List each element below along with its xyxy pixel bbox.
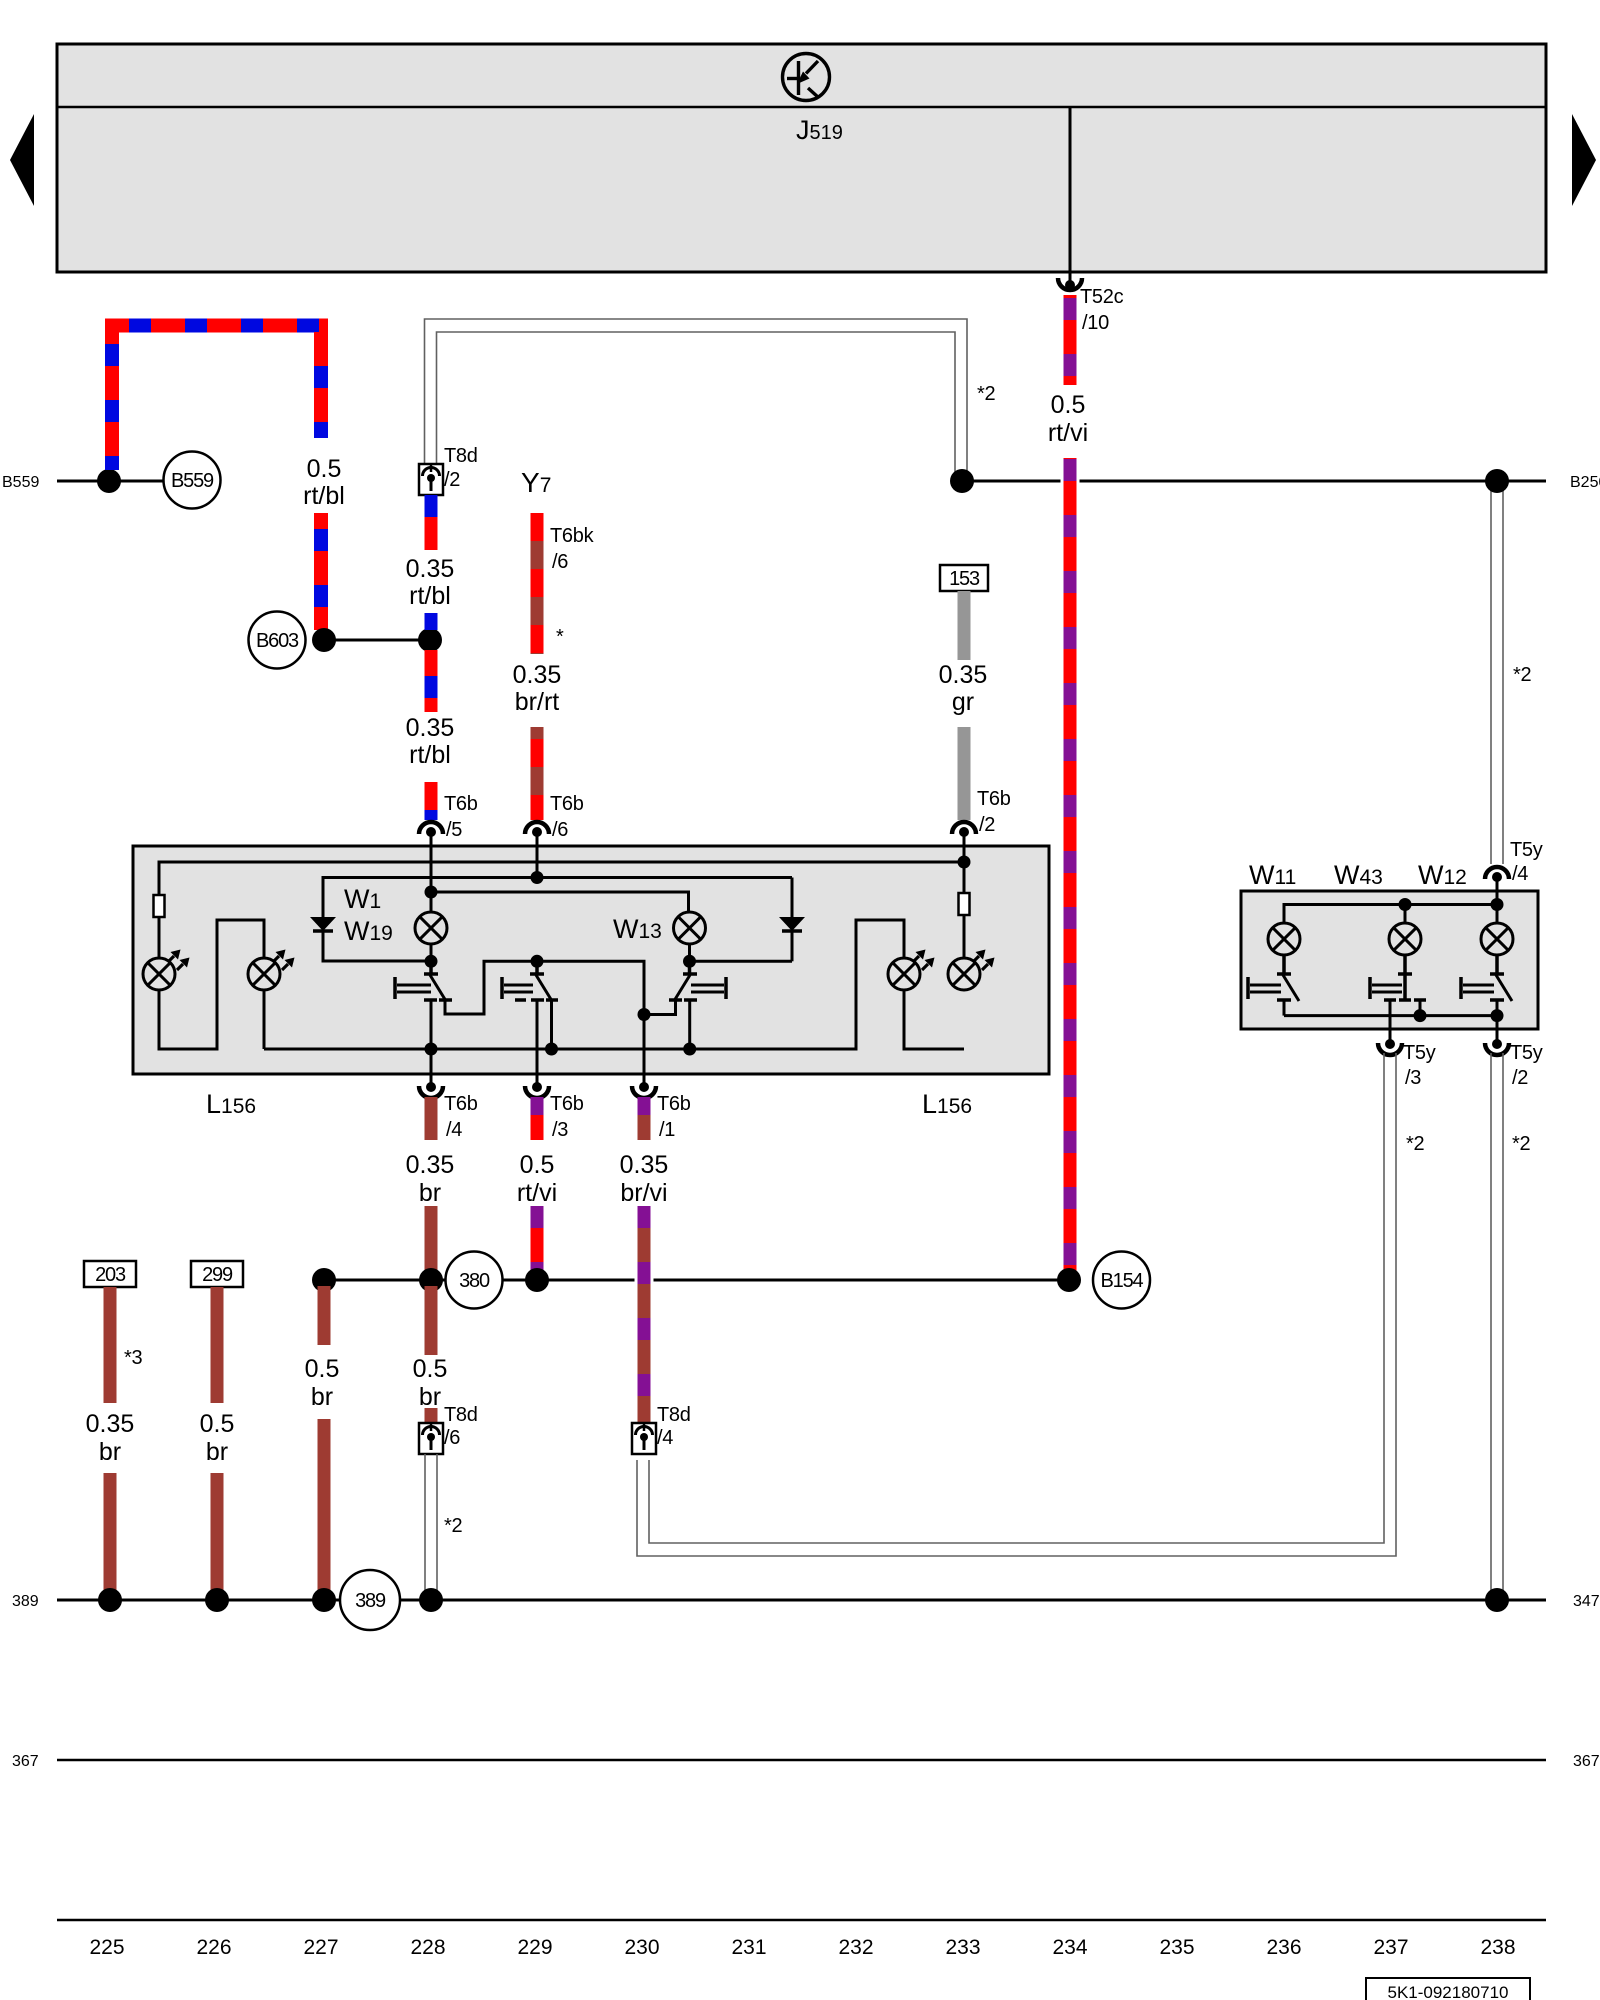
svg-text:235: 235	[1159, 1936, 1194, 1959]
svg-text:T8d: T8d	[444, 1404, 478, 1426]
svg-text:T6b: T6b	[550, 793, 584, 815]
svg-text:rt/bl: rt/bl	[409, 582, 451, 610]
wire: T6b/5 pin line into W1 bulb	[430, 846, 433, 912]
svg-text:B250: B250	[1570, 474, 1600, 491]
wire 0.35 br/rt (Y7 to T6b/6)	[531, 513, 544, 820]
svg-text:T5y: T5y	[1510, 1042, 1543, 1064]
wire: top rail y862	[159, 862, 964, 895]
svg-text:T6bk: T6bk	[550, 525, 595, 547]
svg-text:0.5: 0.5	[305, 1355, 340, 1383]
svg-text:br/rt: br/rt	[515, 688, 560, 716]
LED E2	[248, 950, 295, 991]
connector T8d/6 (boxed)	[419, 1404, 478, 1454]
svg-text:0.5: 0.5	[200, 1410, 235, 1438]
circle 389	[340, 1570, 400, 1630]
svg-text:/6: /6	[444, 1427, 460, 1449]
svg-text:br: br	[311, 1383, 333, 1411]
wire 0.5 rt/bl (п-shape top left)	[105, 326, 328, 631]
svg-text:B154: B154	[1101, 1270, 1144, 1292]
svg-text:/3: /3	[552, 1119, 568, 1141]
svg-text:229: 229	[517, 1936, 552, 1959]
box 203	[84, 1261, 136, 1287]
connector T52c/10	[1058, 272, 1124, 334]
wire 0.35 rt/bl (B603 node down to T6b/5)	[425, 650, 438, 820]
svg-text:230: 230	[624, 1936, 659, 1959]
svg-text:5K1-092180710: 5K1-092180710	[1387, 1983, 1508, 2000]
svg-text:/5: /5	[446, 819, 462, 841]
node on B559 line	[97, 469, 121, 493]
track numbers	[89, 1936, 1515, 1959]
wire 0.35 rt/bl (T8d/2 down to B603 node)	[425, 495, 438, 630]
svg-text:347: 347	[1573, 1593, 1600, 1610]
svg-text:T52c: T52c	[1080, 286, 1124, 308]
W11 bulb bottom to line	[1283, 1000, 1286, 1016]
B559 line (left)	[57, 480, 163, 483]
svg-text:/4: /4	[657, 1427, 673, 1449]
wire 0.5 br (299 down to 389 line)	[211, 1287, 224, 1594]
wire 0.35 br (T6b/4 down to 380 node)	[425, 1097, 438, 1280]
right page arrow	[1572, 114, 1596, 206]
switch under W11	[1248, 955, 1299, 1001]
svg-text:B603: B603	[256, 630, 299, 652]
W43 pin line down to T5y/3	[1389, 1000, 1392, 1042]
box 299	[191, 1261, 243, 1287]
svg-text:*3: *3	[124, 1347, 142, 1369]
wire 0.5 rt/vi (T6b/3 down to 380 line)	[531, 1097, 544, 1274]
LED E4	[948, 950, 995, 991]
connector T8d/4 (boxed)	[632, 1404, 691, 1454]
svg-text:225: 225	[89, 1936, 124, 1959]
junction dots inside L156	[425, 856, 971, 1056]
svg-text:*2: *2	[977, 383, 995, 405]
svg-text:T6b: T6b	[444, 793, 478, 815]
bulb W12	[1481, 923, 1513, 955]
svg-text:W12: W12	[1418, 860, 1467, 890]
svg-text:226: 226	[196, 1936, 231, 1959]
transistor/switch T1	[395, 961, 452, 1001]
svg-text:*2: *2	[1406, 1133, 1424, 1155]
wire: W13 bulb bottom	[688, 944, 691, 961]
wire: T2 collector link y961 to pin1 column	[537, 961, 644, 1083]
connector T5y/4	[1485, 839, 1543, 892]
bulb W1/W19	[415, 912, 447, 944]
svg-text:*: *	[556, 626, 564, 648]
svg-text:br: br	[99, 1438, 121, 1466]
svg-text:380: 380	[459, 1270, 490, 1292]
bottom track line	[57, 1919, 1546, 1922]
svg-text:/1: /1	[659, 1119, 675, 1141]
wire: W1 bulb bottom	[430, 944, 433, 961]
twisted pair wire to T8d/2 (*2)	[425, 319, 968, 474]
svg-text:/10: /10	[1082, 312, 1109, 334]
svg-text:231: 231	[731, 1936, 766, 1959]
svg-text:0.5: 0.5	[307, 455, 342, 483]
svg-text:0.35: 0.35	[513, 661, 562, 689]
wire 0.35 br/vi (T6b/1 down to T8d/4)	[638, 1097, 651, 1423]
resistor right	[959, 893, 970, 915]
380 / B154 line	[322, 1279, 445, 1282]
svg-text:T5y: T5y	[1403, 1042, 1436, 1064]
B603 node line	[324, 639, 430, 642]
svg-text:0.35: 0.35	[406, 714, 455, 742]
svg-text:T6b: T6b	[550, 1093, 584, 1115]
connector T6b/1	[632, 1074, 691, 1141]
wire 0.5 br (380 node down to 389 line)	[318, 1286, 331, 1594]
svg-text:367: 367	[12, 1753, 39, 1770]
twisted pair from B250 line down to T5y/4 (*2)	[1491, 488, 1503, 864]
svg-text:299: 299	[202, 1264, 233, 1286]
wire: T1 collector jog to T2 node	[445, 961, 537, 1014]
B250 line (right)	[962, 480, 1546, 483]
svg-text:232: 232	[838, 1936, 873, 1959]
circle 380	[446, 1252, 503, 1309]
svg-text:0.35: 0.35	[406, 555, 455, 583]
connector T5y/3	[1378, 1039, 1436, 1089]
367 line	[57, 1759, 1546, 1762]
svg-text:rt/vi: rt/vi	[1048, 419, 1088, 447]
W12 pin line down to T5y/2	[1496, 1000, 1499, 1042]
svg-text:/6: /6	[552, 551, 568, 573]
svg-text:T8d: T8d	[444, 445, 478, 467]
svg-text:233: 233	[945, 1936, 980, 1959]
J519 control unit box	[57, 44, 1546, 272]
wire: T2 diag contact to rail	[550, 1000, 553, 1049]
wire 0.35 gr	[958, 591, 971, 820]
wire: T2 emitter down to pin /3	[536, 1000, 539, 1083]
svg-text:*2: *2	[1512, 1133, 1530, 1155]
svg-text:T5y: T5y	[1510, 839, 1543, 861]
svg-text:/2: /2	[979, 814, 995, 836]
389 / 347 ground line	[57, 1599, 340, 1602]
drawing number box	[1366, 1978, 1530, 2000]
wire: T3 second contact to rail	[688, 1000, 691, 1049]
svg-text:Y7: Y7	[521, 467, 551, 498]
svg-text:L156: L156	[206, 1089, 256, 1119]
svg-text:389: 389	[355, 1590, 386, 1612]
J519 inner divider line	[57, 106, 1546, 109]
svg-text:0.5: 0.5	[520, 1151, 555, 1179]
svg-text:/2: /2	[444, 469, 460, 491]
wire: left LED chain	[158, 917, 161, 958]
svg-text:B559: B559	[2, 474, 39, 491]
svg-text:0.5: 0.5	[413, 1355, 448, 1383]
svg-text:/6: /6	[552, 819, 568, 841]
switch under W12	[1461, 955, 1512, 1001]
svg-text:br: br	[419, 1383, 441, 1411]
diode right	[537, 878, 805, 962]
resistor left	[154, 895, 165, 917]
svg-text:L156: L156	[922, 1089, 972, 1119]
svg-text:227: 227	[303, 1936, 338, 1959]
svg-text:237: 237	[1373, 1936, 1408, 1959]
W43 second contact to bottom line	[1419, 1000, 1422, 1016]
svg-text:/2: /2	[1512, 1067, 1528, 1089]
svg-text:W43: W43	[1334, 860, 1383, 890]
internals of interior lamp unit	[1284, 892, 1497, 1042]
svg-text:389: 389	[12, 1593, 39, 1610]
diode left	[310, 917, 336, 931]
svg-text:367: 367	[1573, 1753, 1600, 1770]
connector T8d/2 (boxed)	[419, 445, 478, 495]
wire 0.35 br (203 down to 389 line)	[104, 1287, 117, 1594]
svg-text:rt/vi: rt/vi	[517, 1179, 557, 1207]
connector T6b/4	[419, 1074, 478, 1141]
svg-text:T8d: T8d	[657, 1404, 691, 1426]
svg-text:/3: /3	[1405, 1067, 1421, 1089]
svg-text:0.5: 0.5	[1051, 391, 1086, 419]
svg-text:rt/bl: rt/bl	[409, 741, 451, 769]
wire: LED4 top to resistor	[963, 914, 966, 958]
top feed line	[1284, 905, 1497, 924]
switch under W43	[1370, 955, 1426, 1000]
svg-text:gr: gr	[952, 688, 974, 716]
bulb W11	[1268, 923, 1300, 955]
svg-text:228: 228	[410, 1936, 445, 1959]
wire: T6b/6 pin line	[536, 846, 539, 878]
K symbol (circle with arrow)	[783, 54, 830, 101]
svg-text:br: br	[206, 1438, 228, 1466]
interior lamps unit box W11/W43/W12	[1241, 891, 1538, 1029]
svg-text:/4: /4	[446, 1119, 462, 1141]
wire 0.5 br (380 node down to T8d/6)	[425, 1286, 438, 1423]
J519 internal wire to T52c	[1069, 107, 1072, 272]
transistor/switch T3	[669, 961, 726, 1001]
B559 circle	[164, 452, 221, 509]
junction dots in interior lamp unit	[1399, 898, 1504, 1022]
LED E3	[888, 950, 935, 991]
svg-text:W11: W11	[1249, 860, 1296, 890]
svg-text:0.35: 0.35	[620, 1151, 669, 1179]
LED E1	[143, 950, 190, 991]
svg-text:0.35: 0.35	[406, 1151, 455, 1179]
svg-text:*2: *2	[444, 1515, 462, 1537]
wire: bottom rail y1049	[264, 920, 904, 1049]
svg-text:T6b: T6b	[657, 1093, 691, 1115]
transistor/switch T2	[502, 961, 558, 1001]
wire: T3 diag contact jog to pin1 column	[644, 1000, 676, 1015]
svg-text:T6b: T6b	[977, 788, 1011, 810]
box 153	[940, 565, 988, 591]
node and circle B154	[1057, 1268, 1081, 1292]
svg-text:br: br	[419, 1179, 441, 1207]
left page arrow	[10, 114, 34, 206]
connector T6b/5	[419, 793, 478, 847]
twisted pair from T5y/3 down-left to T8d/4 (*2)	[637, 1053, 1396, 1556]
wire: diode left bottom to bulb node	[323, 931, 431, 961]
node joining pair to B250 line	[950, 469, 974, 493]
wire: diode branch line y877	[323, 878, 537, 918]
wire: T6b/2 pin line	[963, 846, 966, 895]
twisted pair from T8d/6 down to 389 line (*2)	[425, 1454, 437, 1594]
connector T6b/6	[525, 793, 584, 847]
svg-text:238: 238	[1480, 1936, 1515, 1959]
svg-text:rt/bl: rt/bl	[303, 482, 345, 510]
svg-text:234: 234	[1052, 1936, 1087, 1959]
L156 tail lamp unit box	[133, 846, 1049, 1074]
svg-text:0.35: 0.35	[939, 661, 988, 689]
svg-text:153: 153	[949, 568, 980, 590]
connector T6b/2	[952, 788, 1011, 847]
bulb W43	[1389, 923, 1421, 955]
svg-text:203: 203	[95, 1264, 126, 1286]
B603 circle	[249, 612, 306, 669]
svg-text:B559: B559	[171, 470, 214, 492]
connector T5y/2	[1485, 1039, 1543, 1089]
svg-text:br/vi: br/vi	[620, 1179, 667, 1207]
connector T6b/3	[525, 1074, 584, 1141]
svg-text:*2: *2	[1513, 664, 1531, 686]
wire 0.5 rt/vi (long, column 234)	[1064, 295, 1077, 1280]
svg-text:0.35: 0.35	[86, 1410, 135, 1438]
bottom line	[1284, 1014, 1497, 1017]
svg-text:/4: /4	[1512, 863, 1528, 885]
junction dots on 380 line	[312, 1268, 336, 1292]
svg-text:T6b: T6b	[444, 1093, 478, 1115]
wire: T1 emitter down to rail and pin /4	[430, 1000, 433, 1083]
svg-text:236: 236	[1266, 1936, 1301, 1959]
wire: y892 lamp feed line	[431, 892, 689, 912]
twisted pair from T5y/2 down to 347 line (*2)	[1491, 1053, 1503, 1594]
junction dots on 389 line	[98, 1588, 122, 1612]
wire: LED3-LED4 bottom link	[904, 990, 964, 1049]
bulb W13	[674, 912, 706, 944]
